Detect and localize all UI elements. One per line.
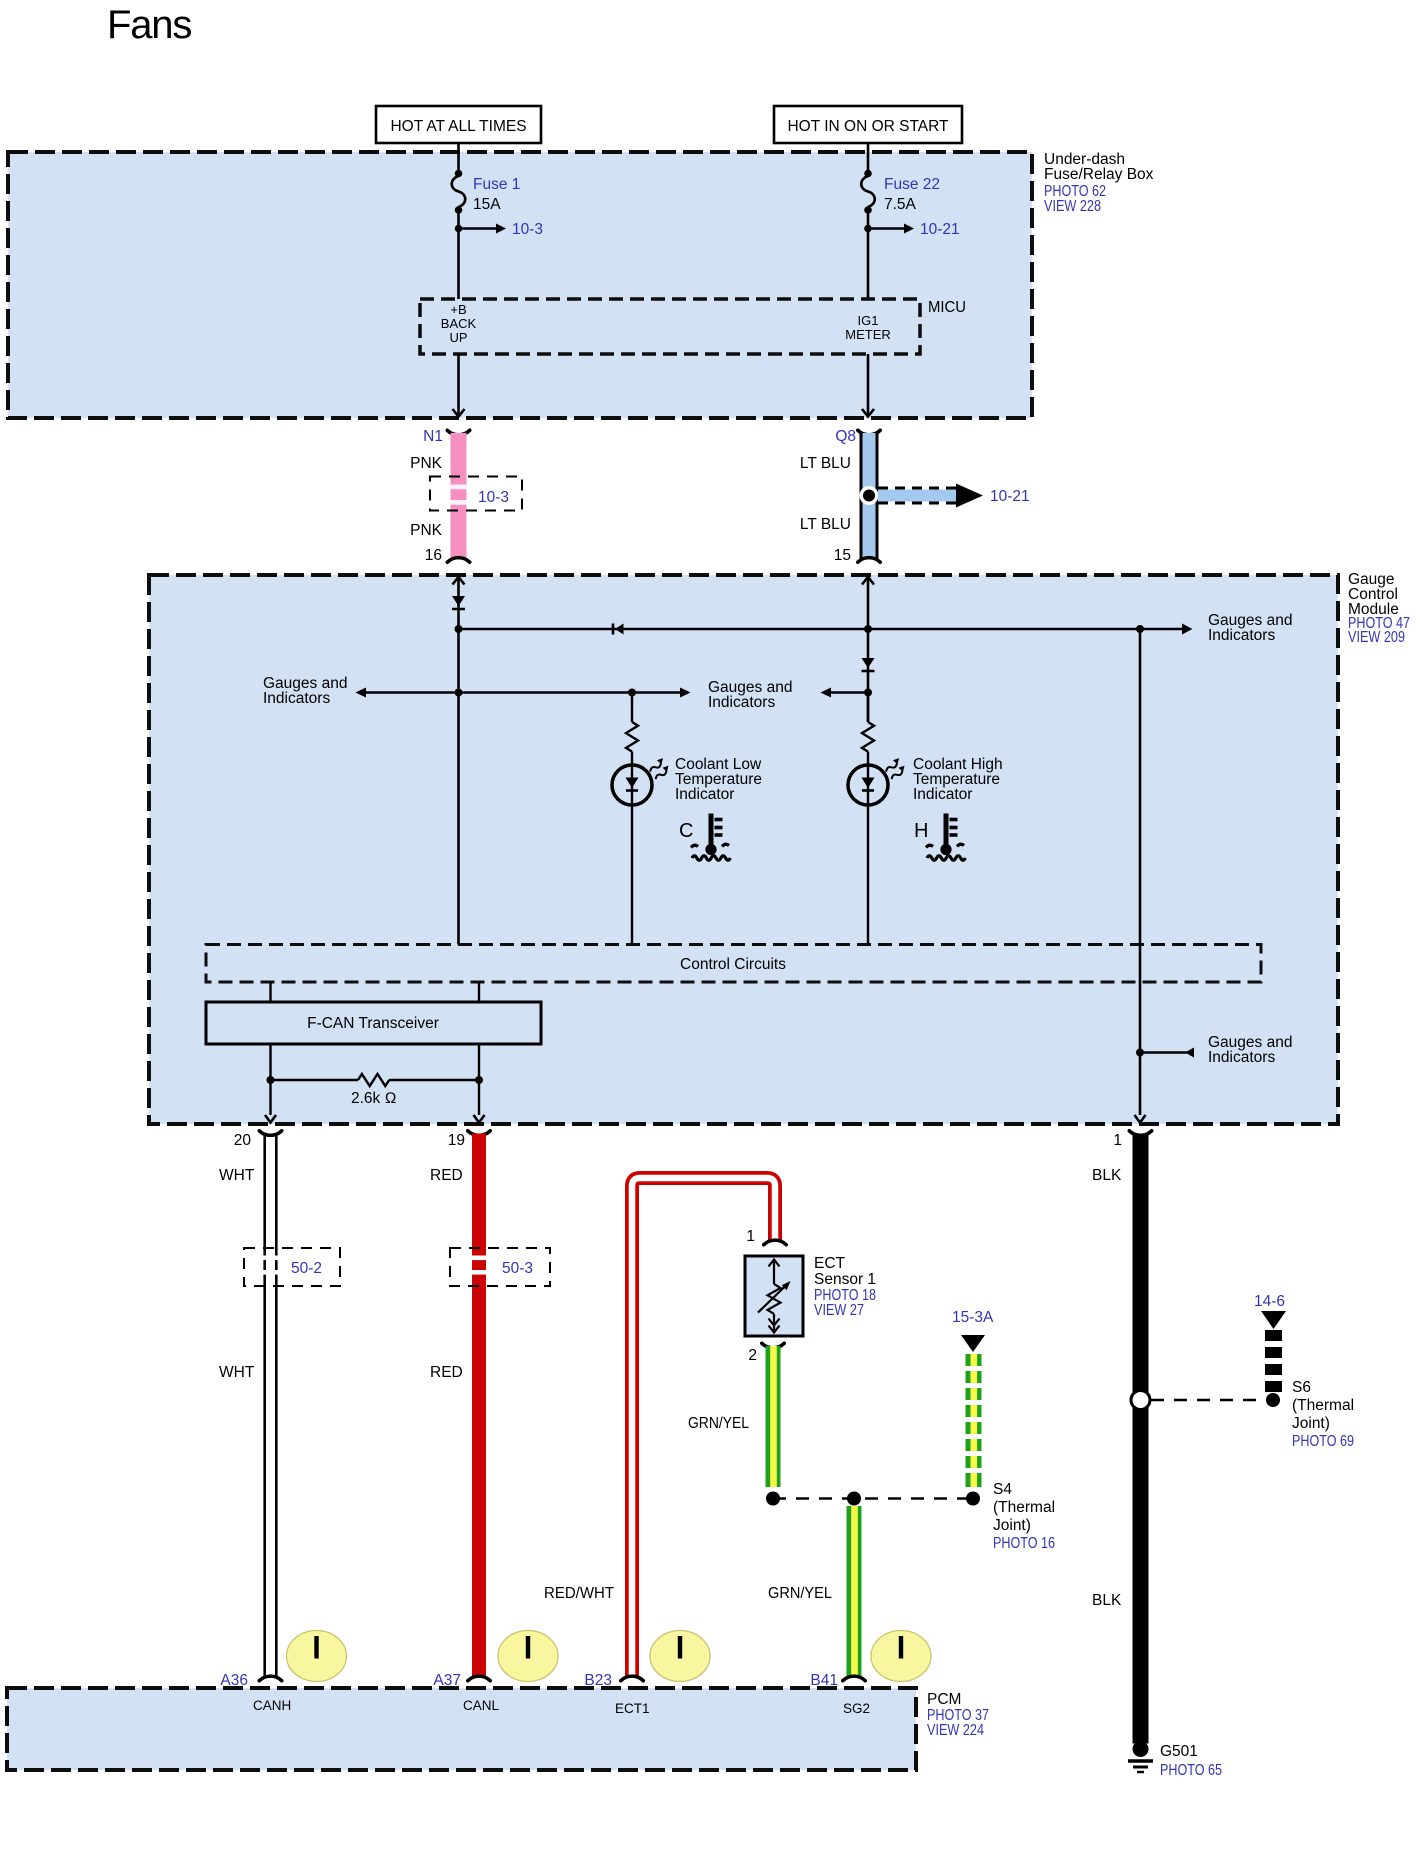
- svg-text:15A: 15A: [473, 196, 501, 213]
- svg-text:PHOTO 69: PHOTO 69: [1292, 1433, 1354, 1450]
- connector symbol A36: [287, 1631, 347, 1682]
- svg-text:Joint): Joint): [993, 1517, 1031, 1534]
- svg-text:(Thermal: (Thermal: [1292, 1397, 1354, 1414]
- coolant high temperature indicator lamp: [848, 758, 907, 805]
- gauge control module label: [1348, 571, 1410, 646]
- svg-text:IG1: IG1: [858, 313, 879, 328]
- wire LT BLU Q8 to 15: [861, 433, 877, 560]
- svg-text:S6: S6: [1292, 1379, 1311, 1396]
- entry arrow at pin 15: [862, 577, 874, 723]
- terminal A37 cap: [468, 1676, 490, 1681]
- svg-text:VIEW 27: VIEW 27: [814, 1302, 864, 1319]
- junction dot S4: [966, 1492, 980, 1506]
- wire MICU to N1 with arrow: [453, 354, 465, 417]
- ECT pin 2 cap: [762, 1343, 784, 1348]
- connector 50-3 box on RED wire: [450, 1248, 550, 1286]
- pin 19 cap: [468, 1131, 490, 1136]
- svg-text:MICU: MICU: [928, 299, 966, 316]
- connector 10-3 box on PNK wire: [430, 477, 522, 511]
- svg-text:ECT1: ECT1: [615, 1701, 650, 1716]
- PCM box: [7, 1688, 916, 1770]
- svg-text:Fans: Fans: [107, 3, 191, 47]
- junction circle on BLK wire: [1131, 1391, 1150, 1410]
- horizontal arrow line 3: [821, 688, 873, 698]
- svg-text:RED: RED: [430, 1364, 463, 1381]
- coolant low temperature indicator lamp: [612, 758, 671, 805]
- wire F-CAN to pin 19: [474, 1044, 485, 1123]
- svg-text:G501: G501: [1160, 1743, 1198, 1760]
- svg-text:WHT: WHT: [219, 1364, 255, 1381]
- connector N1 cap: [447, 430, 469, 435]
- svg-text:ECT: ECT: [814, 1255, 846, 1272]
- ECT pin 1 cap: [764, 1240, 786, 1245]
- svg-text:Indicator: Indicator: [675, 786, 734, 803]
- wire F-CAN to pin 20: [265, 1044, 276, 1123]
- wire control circuits to F-CAN left: [269, 982, 271, 1002]
- svg-text:Indicators: Indicators: [263, 690, 330, 707]
- terminal A36 cap: [259, 1676, 281, 1681]
- under-dash fuse/relay box: [8, 152, 1032, 418]
- svg-text:PCM: PCM: [927, 1691, 961, 1708]
- under-dash box label: [1044, 151, 1154, 215]
- svg-text:2.6k Ω: 2.6k Ω: [351, 1090, 397, 1107]
- connector 50-2 box on WHT wire: [244, 1248, 340, 1286]
- svg-text:15-3A: 15-3A: [952, 1309, 994, 1326]
- svg-text:(Thermal: (Thermal: [993, 1499, 1055, 1516]
- F-CAN transceiver box: [206, 1002, 541, 1044]
- svg-text:B41: B41: [810, 1672, 838, 1689]
- wire WHT pin20 to A36: [265, 1134, 277, 1679]
- branch arrow to 10-21: [864, 221, 959, 238]
- svg-text:PHOTO 65: PHOTO 65: [1160, 1762, 1222, 1779]
- svg-text:Indicators: Indicators: [1208, 627, 1275, 644]
- connector symbol A37: [498, 1631, 558, 1682]
- PCM label: [927, 1691, 989, 1739]
- pin 15 cap: [858, 558, 880, 563]
- svg-text:Sensor 1: Sensor 1: [814, 1271, 876, 1288]
- wire GRN/YEL S4 to B41: [847, 1506, 862, 1678]
- stub arrow gauges and indicators bottom: [1136, 1048, 1194, 1058]
- svg-text:20: 20: [234, 1132, 252, 1149]
- svg-text:A37: A37: [433, 1672, 461, 1689]
- svg-text:WHT: WHT: [219, 1167, 255, 1184]
- S4 thermal joint label: [993, 1481, 1055, 1552]
- svg-text:UP: UP: [449, 330, 467, 345]
- svg-text:10-21: 10-21: [920, 221, 960, 238]
- svg-text:F-CAN Transceiver: F-CAN Transceiver: [307, 1015, 439, 1032]
- thermal joint dashed link S4: [773, 1497, 973, 1500]
- svg-text:GRN/YEL: GRN/YEL: [768, 1585, 832, 1602]
- wire fuse1 to MICU: [457, 212, 460, 299]
- svg-text:2: 2: [748, 1347, 757, 1364]
- 15-3A dashed GRN/YEL wire: [964, 1354, 983, 1487]
- svg-text:RED: RED: [430, 1167, 463, 1184]
- svg-text:10-3: 10-3: [478, 489, 509, 506]
- svg-text:50-2: 50-2: [291, 1260, 322, 1277]
- svg-text:Fuse/Relay Box: Fuse/Relay Box: [1044, 166, 1154, 183]
- PNK labels: [410, 455, 443, 539]
- WHT labels: [219, 1167, 255, 1381]
- junction dot S6: [1266, 1393, 1280, 1407]
- svg-text:19: 19: [448, 1132, 465, 1149]
- gauge control module box: [149, 575, 1338, 1124]
- coolant high temperature indicator label: [913, 756, 1003, 803]
- svg-text:C: C: [679, 820, 693, 842]
- dashed tube arrow to 10-21: [878, 484, 1030, 508]
- svg-text:BACK: BACK: [441, 316, 477, 331]
- terminal B23 cap: [621, 1676, 643, 1681]
- svg-text:METER: METER: [845, 327, 891, 342]
- RED labels: [430, 1167, 463, 1381]
- wire GRN/YEL ECT to S4: [766, 1346, 781, 1487]
- fuse 1 label: [473, 176, 520, 213]
- svg-text:CANH: CANH: [253, 1698, 291, 1713]
- wire PNK N1 to 16: [450, 433, 468, 560]
- svg-text:RED/WHT: RED/WHT: [544, 1585, 615, 1602]
- svg-text:10-3: 10-3: [512, 221, 543, 238]
- svg-text:GRN/YEL: GRN/YEL: [688, 1415, 749, 1432]
- svg-text:Indicators: Indicators: [708, 694, 775, 711]
- svg-text:PNK: PNK: [410, 455, 443, 472]
- svg-text:HOT IN ON OR START: HOT IN ON OR START: [787, 118, 949, 135]
- svg-text:Fuse 22: Fuse 22: [884, 176, 940, 193]
- svg-text:50-3: 50-3: [502, 1260, 533, 1277]
- wire line1 to pin 1: [1135, 629, 1146, 1123]
- svg-text:Control Circuits: Control Circuits: [680, 956, 786, 973]
- fuse F1: [452, 170, 466, 214]
- svg-text:Joint): Joint): [1292, 1415, 1330, 1432]
- svg-text:+B: +B: [450, 302, 466, 317]
- fuse 22 label: [884, 176, 940, 213]
- wire RED/WHT B23 to ECT: [632, 1178, 775, 1678]
- gauges and indicators label right top: [1208, 612, 1292, 644]
- S6 dashed BLK wire: [1265, 1330, 1282, 1392]
- MICU box: [420, 299, 920, 354]
- S6 thermal joint label: [1292, 1379, 1354, 1450]
- svg-text:7.5A: 7.5A: [884, 196, 917, 213]
- svg-text:PHOTO 16: PHOTO 16: [993, 1535, 1055, 1552]
- wire BLK pin1 to G501: [1133, 1134, 1149, 1744]
- LT BLU labels: [800, 455, 851, 533]
- flow symbol on line 15 branch: [862, 658, 875, 671]
- pin 20 cap: [259, 1131, 281, 1136]
- svg-text:LT BLU: LT BLU: [800, 516, 851, 533]
- svg-text:Q8: Q8: [835, 428, 856, 445]
- wire lamp to control circuits right: [867, 805, 869, 945]
- svg-text:Indicator: Indicator: [913, 786, 972, 803]
- svg-text:H: H: [914, 820, 928, 842]
- svg-text:SG2: SG2: [843, 1701, 870, 1716]
- wire lamp to control circuits: [631, 805, 633, 945]
- svg-text:1: 1: [1113, 1132, 1122, 1149]
- svg-text:VIEW 224: VIEW 224: [927, 1722, 984, 1739]
- pin 1 cap: [1129, 1131, 1151, 1136]
- gauges and indicators label left: [263, 675, 347, 707]
- branch arrow to 10-3: [455, 221, 543, 238]
- C thermometer icon: [679, 814, 730, 861]
- horizontal bus line 1: [455, 624, 1193, 635]
- horizontal arrow line 2 left: [356, 688, 691, 698]
- terminal B41 cap: [843, 1676, 865, 1681]
- H thermometer icon: [914, 814, 965, 861]
- svg-text:VIEW 228: VIEW 228: [1044, 198, 1101, 215]
- svg-text:PNK: PNK: [410, 522, 443, 539]
- resistor low temp: [626, 693, 638, 766]
- svg-text:S4: S4: [993, 1481, 1012, 1498]
- G501 label: [1160, 1743, 1222, 1779]
- ground G501: [1128, 1741, 1153, 1772]
- wire MICU to Q8 with arrow: [862, 354, 874, 417]
- wire from HOT AT ALL TIMES: [457, 143, 460, 172]
- coolant low temperature indicator label: [675, 756, 762, 803]
- svg-text:B23: B23: [584, 1672, 612, 1689]
- svg-text:A36: A36: [220, 1672, 248, 1689]
- svg-text:Fuse 1: Fuse 1: [473, 176, 520, 193]
- connector symbol B23: [650, 1631, 710, 1682]
- gauges and indicators label middle: [708, 679, 792, 711]
- svg-text:14-6: 14-6: [1254, 1293, 1285, 1310]
- svg-text:BLK: BLK: [1092, 1167, 1122, 1184]
- svg-text:Indicators: Indicators: [1208, 1049, 1275, 1066]
- svg-text:N1: N1: [423, 428, 443, 445]
- resistor high temp: [862, 693, 874, 766]
- wire from HOT IN ON OR START: [867, 143, 870, 172]
- control circuits box: [206, 945, 1261, 983]
- junction dot at GRN/YEL 1: [766, 1492, 780, 1506]
- label box HOT AT ALL TIMES: [376, 106, 541, 143]
- wire fuse22 to MICU: [867, 212, 870, 299]
- svg-text:15: 15: [834, 547, 851, 564]
- connector symbol B41: [871, 1631, 931, 1682]
- flow symbol below pin 16: [452, 596, 465, 609]
- ECT sensor label: [814, 1255, 876, 1319]
- svg-text:1: 1: [746, 1228, 755, 1245]
- 14-6 arrow triangle: [1261, 1311, 1286, 1329]
- svg-text:HOT AT ALL TIMES: HOT AT ALL TIMES: [390, 118, 526, 135]
- label box HOT IN ON OR START: [774, 106, 962, 143]
- wire RED pin19 to A37: [472, 1134, 486, 1679]
- resistor 2.6k between CAN lines: [267, 1074, 484, 1107]
- junction dot at GRN/YEL 2: [847, 1492, 861, 1506]
- svg-text:VIEW 209: VIEW 209: [1348, 629, 1405, 646]
- connector Q8 cap: [858, 430, 880, 435]
- svg-text:16: 16: [425, 547, 442, 564]
- IG1 METER pin label: [845, 313, 891, 342]
- 15-3A arrow triangle: [961, 1335, 985, 1352]
- thermal joint dashed link S6: [1151, 1399, 1266, 1402]
- junction dot on LT BLU wire: [860, 486, 879, 505]
- svg-text:LT BLU: LT BLU: [800, 455, 851, 472]
- svg-text:BLK: BLK: [1092, 1592, 1122, 1609]
- svg-text:CANL: CANL: [463, 1698, 500, 1713]
- +B BACK UP pin label: [441, 302, 477, 345]
- svg-text:10-21: 10-21: [990, 488, 1030, 505]
- BLK labels: [1092, 1167, 1122, 1609]
- gauges and indicators label bottom right: [1208, 1034, 1292, 1066]
- pin 16 cap: [447, 558, 469, 563]
- ECT sensor 1 box: [745, 1256, 803, 1336]
- fuse F22: [861, 170, 875, 214]
- entry arrow at pin 16: [453, 577, 465, 945]
- wire control circuits to F-CAN right: [478, 982, 480, 1002]
